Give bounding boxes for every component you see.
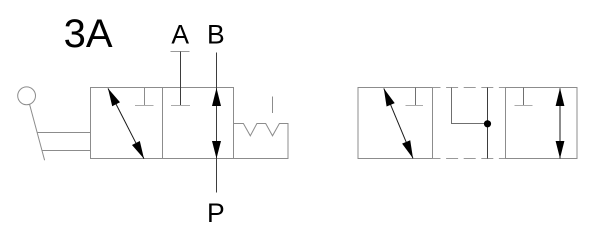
blocked port bar (V2 right position) — [515, 105, 533, 107]
svg-text:B: B — [207, 19, 225, 49]
vertical flow arrowhead up (V2) — [556, 88, 565, 106]
vertical flow arrow shaft (V2 right position) — [559, 88, 561, 158]
blocked port stub (V2 right position) — [523, 88, 525, 106]
valve V1 body (two-position envelope) — [91, 88, 234, 159]
lever actuator knob (valve V1) — [18, 87, 36, 105]
valve V2 center position dashed top edge — [433, 87, 506, 89]
lever link lower wire — [42, 150, 90, 152]
blocked port stub (V1 left position) — [144, 88, 146, 106]
center position branch wire (down then right) — [452, 88, 488, 124]
return spring (V1) — [234, 124, 289, 159]
blocked port stub (V2 left position) — [415, 88, 417, 106]
svg-text:P: P — [207, 198, 225, 228]
blocked port bar (V2 left position) — [406, 105, 424, 107]
spring pilot stub — [272, 97, 274, 114]
svg-text:3A: 3A — [64, 12, 113, 56]
valve V1 position divider — [162, 88, 164, 159]
diagonal flow arrowhead upper — [108, 88, 120, 106]
valve V2 center position dashed bottom edge — [433, 158, 506, 160]
lever shaft — [30, 104, 45, 160]
svg-text:A: A — [171, 19, 189, 49]
port A terminator tick — [171, 51, 190, 53]
blocked port A bar (V1 right position) — [171, 105, 190, 107]
port A line — [180, 52, 182, 106]
valve V2 left position box — [358, 88, 433, 159]
lever link upper wire — [37, 132, 90, 134]
diagonal flow arrow shaft (V1 left position) — [108, 88, 144, 158]
diagonal flow arrowhead lower (V2) — [402, 140, 413, 158]
center position through wire — [487, 88, 489, 159]
valve V2 right position box — [506, 88, 578, 159]
flow arrowhead down (P) — [212, 141, 221, 159]
flow arrowhead up (B) — [212, 88, 221, 106]
vertical flow arrowhead down (V2) — [556, 141, 565, 159]
junction dot — [484, 120, 491, 127]
diagonal flow arrowhead upper (V2) — [384, 88, 395, 106]
port B to P flow line — [216, 53, 218, 193]
diagonal flow arrowhead lower — [132, 141, 144, 159]
blocked port bar (V1 left position) — [135, 105, 154, 107]
diagonal flow arrow shaft (V2 left position) — [384, 88, 413, 158]
